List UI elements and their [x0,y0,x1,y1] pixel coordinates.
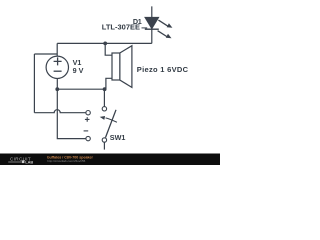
svg-text:http://circuitlab.com/c5uvh55: http://circuitlab.com/c5uvh55 [47,159,85,163]
svg-text:Piezo 1 6VDC: Piezo 1 6VDC [137,65,189,74]
svg-text:SW1: SW1 [110,133,126,142]
svg-text:LTL-307EE: LTL-307EE [102,23,140,32]
svg-text:9 V: 9 V [73,66,84,75]
svg-text:LAB: LAB [25,159,33,164]
